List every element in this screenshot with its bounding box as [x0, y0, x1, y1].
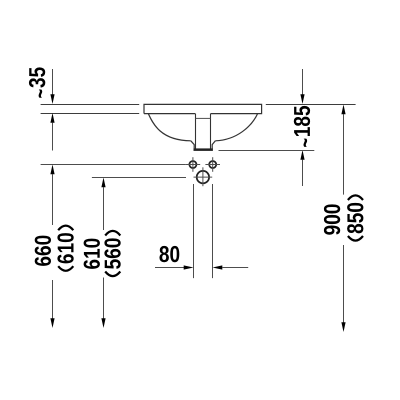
660 reference line: [41, 164, 186, 166]
label (850): [347, 203, 363, 233]
dim 660 line with arrows: [50, 165, 54, 329]
drain channel right vertical: [210, 114, 212, 149]
drain channel top line: [196, 117, 211, 119]
dim 80 right arrow: [213, 265, 249, 269]
dim ~185 lower arrow: [300, 150, 304, 186]
label (560): [104, 238, 120, 268]
label ~185: [294, 106, 310, 147]
drain stub left chamfer and wall: [191, 141, 194, 149]
fixing hole right circle: [205, 157, 220, 172]
label 660: [35, 236, 51, 266]
bowl left wall: [148, 114, 191, 141]
80 extension line right: [212, 184, 214, 278]
fixing hole left circle: [186, 157, 201, 172]
dim ~185 upper arrow: [300, 69, 304, 104]
dim ~35 upper arrow: [50, 69, 54, 104]
dim ~35 lower arrow: [50, 113, 54, 151]
dim 610 line with arrows: [101, 178, 105, 329]
80 extension line left: [193, 184, 195, 278]
dim 80 left arrow: [155, 265, 194, 269]
bowl right wall: [215, 114, 257, 141]
counter top line left segment: [41, 104, 140, 106]
label 900: [324, 204, 340, 234]
drain outlet circle: [194, 167, 213, 186]
label ~35: [29, 67, 45, 97]
label (610): [57, 233, 73, 263]
610 reference line: [92, 177, 186, 179]
drain channel left vertical: [195, 114, 197, 149]
label 610: [84, 239, 100, 269]
label 80: [159, 246, 179, 262]
drain stub bottom bar: [194, 148, 213, 151]
drain bottom reference line: [219, 150, 315, 152]
dim 900 line with arrows: [341, 105, 345, 333]
counter top line right segment: [266, 104, 356, 106]
drain stub right chamfer and wall: [212, 141, 215, 149]
counter bottom line: [41, 113, 140, 115]
basin flange: [144, 104, 262, 113]
